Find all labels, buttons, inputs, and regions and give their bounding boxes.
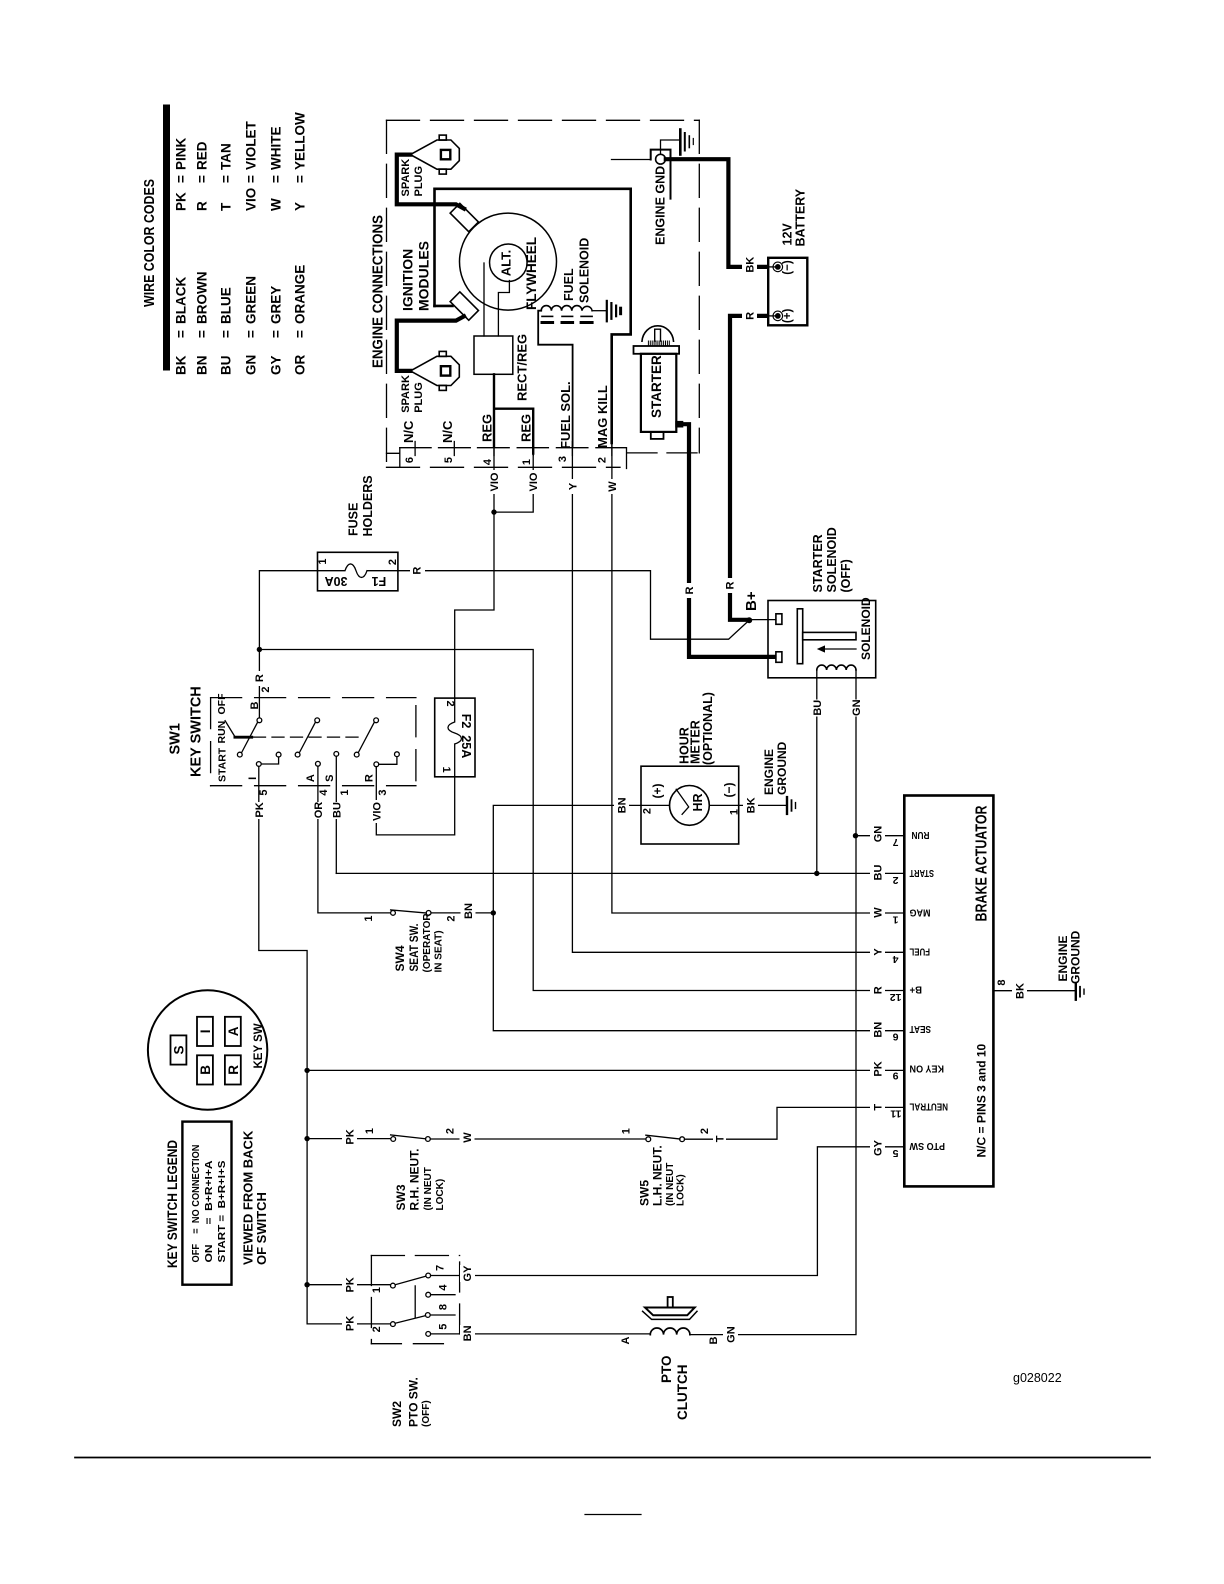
svg-text:(+): (+) xyxy=(651,783,665,798)
svg-text:F1: F1 xyxy=(372,574,387,588)
label BU xyxy=(329,802,344,819)
spark plug 2 wire (thick) xyxy=(397,316,464,371)
label PK (SW2 pin2) xyxy=(342,1315,357,1332)
svg-text:1: 1 xyxy=(440,766,452,772)
svg-text:ENGINE: ENGINE xyxy=(762,749,776,795)
svg-text:7: 7 xyxy=(435,1265,447,1271)
svg-text:(OFF): (OFF) xyxy=(421,1400,432,1427)
svg-text:OF SWITCH: OF SWITCH xyxy=(254,1192,269,1265)
SW2 blade 2 xyxy=(395,1316,425,1324)
PTO clutch rotor xyxy=(645,1308,695,1316)
wire GN to actuator RUN xyxy=(856,835,905,837)
svg-text:1: 1 xyxy=(371,1287,383,1293)
svg-text:SOLENOID: SOLENOID xyxy=(825,527,839,592)
switch RUN bar xyxy=(235,736,252,739)
svg-text:BN: BN xyxy=(616,797,628,813)
svg-text:I: I xyxy=(198,1030,213,1034)
wire BK hour meter to ground xyxy=(739,804,787,806)
svg-text:2: 2 xyxy=(642,808,654,814)
hour meter ground xyxy=(787,797,796,814)
wire BU solenoid to START net xyxy=(816,678,818,873)
node PK dot key-on xyxy=(304,1068,309,1073)
wire BN to actuator SEAT xyxy=(493,913,904,1031)
svg-text:HR: HR xyxy=(691,793,705,811)
svg-text:N/C: N/C xyxy=(401,420,416,443)
wire F1 pin1 to key switch B xyxy=(259,571,317,718)
spark plug 2 body xyxy=(410,351,459,390)
alternator circle xyxy=(490,244,528,282)
svg-text:2: 2 xyxy=(446,915,458,921)
svg-text:FUSE: FUSE xyxy=(347,503,361,536)
svg-text:R: R xyxy=(745,312,757,320)
switch OFF pointer xyxy=(225,721,235,737)
SW2 contact pin1 xyxy=(391,1283,396,1288)
svg-text:GY: GY xyxy=(269,355,284,375)
svg-text:VIO: VIO xyxy=(244,188,259,211)
ignition module 2 xyxy=(450,292,478,320)
SW2 pin4 stub xyxy=(431,1294,455,1296)
hour meter lead right xyxy=(709,804,738,806)
svg-text:WIRE COLOR CODES: WIRE COLOR CODES xyxy=(141,179,158,307)
solenoid terminal 2 xyxy=(776,652,782,663)
ignition modules bracket / engine body outline xyxy=(435,189,631,443)
svg-text:OR: OR xyxy=(313,802,325,819)
svg-text:SEAT: SEAT xyxy=(909,1023,931,1035)
wire VIO to F2 pin2 xyxy=(455,512,494,698)
svg-text:12: 12 xyxy=(890,991,902,1003)
flywheel circle xyxy=(460,213,557,310)
SW4 blade xyxy=(391,910,427,913)
svg-text:PLUG: PLUG xyxy=(413,166,425,197)
svg-text:KEY SWITCH: KEY SWITCH xyxy=(189,686,205,777)
SW2 contact pin7 xyxy=(426,1273,431,1278)
hour meter box xyxy=(641,766,739,844)
hour meter circle xyxy=(670,786,710,826)
starter body xyxy=(641,354,676,432)
svg-text:START: START xyxy=(909,867,934,879)
svg-text:PK: PK xyxy=(174,192,189,211)
svg-text:BU: BU xyxy=(873,865,885,881)
svg-text:T: T xyxy=(219,202,234,211)
svg-text:A: A xyxy=(620,1336,632,1344)
SW3 wire out W to SW5 xyxy=(430,1138,646,1140)
svg-text:OFF: OFF xyxy=(216,693,228,715)
SW2 contact pin4 xyxy=(426,1292,431,1297)
svg-text:FUEL: FUEL xyxy=(562,268,576,301)
svg-text:STARTER: STARTER xyxy=(811,534,825,592)
svg-text:FLYWHEEL: FLYWHEEL xyxy=(524,237,539,310)
svg-text:4: 4 xyxy=(893,953,899,965)
svg-text:PTO SW.: PTO SW. xyxy=(407,1377,421,1427)
svg-text:12V: 12V xyxy=(781,223,795,246)
key sw pin box R xyxy=(225,1055,241,1084)
svg-text:R: R xyxy=(195,201,210,211)
svg-text:GREEN: GREEN xyxy=(244,276,259,324)
svg-text:ENGINE CONNECTIONS: ENGINE CONNECTIONS xyxy=(370,215,387,368)
svg-text:BLUE: BLUE xyxy=(219,287,234,324)
svg-text:5: 5 xyxy=(443,457,455,463)
svg-text:=: = xyxy=(244,330,259,338)
svg-text:(OFF): (OFF) xyxy=(839,559,853,592)
legend entry OR = ORANGE xyxy=(293,265,308,375)
svg-text:N/C: N/C xyxy=(440,420,455,443)
svg-text:F2 25A: F2 25A xyxy=(459,714,473,758)
svg-text:R: R xyxy=(873,986,885,994)
hour meter needle xyxy=(676,789,689,814)
pole2 common contact xyxy=(315,718,320,723)
engine box dashed left edge xyxy=(386,120,388,467)
label OR xyxy=(310,802,325,819)
starter dome hatch xyxy=(648,341,669,346)
svg-text:2: 2 xyxy=(387,559,399,565)
svg-text:=: = xyxy=(219,175,234,183)
SW2 blade 1 xyxy=(395,1276,426,1285)
svg-text:1: 1 xyxy=(363,915,375,921)
legend entry VIO = VIOLET xyxy=(244,120,259,211)
wire VIO key switch R to F2 pin1 xyxy=(376,768,454,835)
node BU dot xyxy=(814,871,819,876)
svg-text:GN: GN xyxy=(873,826,885,843)
svg-text:1: 1 xyxy=(317,558,329,564)
svg-text:N/C = PINS 3 and 10: N/C = PINS 3 and 10 xyxy=(975,1043,989,1157)
svg-text:=: = xyxy=(195,330,210,338)
svg-text:MODULES: MODULES xyxy=(416,241,432,311)
svg-text:LOCK): LOCK) xyxy=(435,1179,446,1211)
svg-text:GROUND: GROUND xyxy=(775,741,789,795)
svg-text:BLACK: BLACK xyxy=(174,277,189,324)
svg-text:BROWN: BROWN xyxy=(195,272,210,325)
node PK dot sw2 xyxy=(304,1282,309,1287)
svg-text:2: 2 xyxy=(597,457,609,463)
pole3 common contact xyxy=(374,718,379,723)
alternator lead 2 xyxy=(498,281,509,337)
svg-text:ENGINE GND: ENGINE GND xyxy=(654,166,668,245)
fuel solenoid ground stub xyxy=(592,310,606,312)
legend entry BN = BROWN xyxy=(195,272,210,376)
svg-text:B+: B+ xyxy=(910,984,923,996)
svg-text:START = B+R+I+S: START = B+R+I+S xyxy=(216,1161,228,1263)
SW2 contact pin5 xyxy=(426,1332,431,1337)
svg-text:RECT/REG: RECT/REG xyxy=(515,334,530,401)
svg-text:RUN: RUN xyxy=(216,721,228,744)
wire GY SW2 pin7 to actuator PTO SW xyxy=(431,1147,905,1276)
solenoid coil xyxy=(817,665,856,670)
node BN junction dot xyxy=(491,910,496,915)
pole2 S contact xyxy=(334,752,339,757)
svg-text:2: 2 xyxy=(260,686,272,692)
svg-text:R: R xyxy=(725,581,737,589)
REG wire from rect/reg to pins 4 and 1 xyxy=(494,374,533,453)
label PK xyxy=(251,802,266,819)
svg-text:1: 1 xyxy=(621,1128,633,1134)
SW4 contact 1 xyxy=(391,911,396,916)
svg-text:START: START xyxy=(217,747,229,782)
wire BU key switch to actuator START xyxy=(336,872,904,874)
spark plug 1 body xyxy=(410,135,459,174)
svg-text:PINK: PINK xyxy=(174,137,189,170)
svg-text:3: 3 xyxy=(557,456,569,462)
pole2 blade contact xyxy=(295,752,300,757)
bracket foot xyxy=(435,305,453,308)
starter solenoid box xyxy=(768,601,876,678)
svg-text:1: 1 xyxy=(364,1128,376,1134)
node VIO junction dot xyxy=(491,509,496,514)
label R (pin B wire) xyxy=(253,671,267,686)
svg-text:3: 3 xyxy=(377,789,389,795)
svg-text:R: R xyxy=(364,774,376,782)
svg-text:S: S xyxy=(324,775,336,782)
svg-text:5: 5 xyxy=(258,789,270,795)
label R near fuse output xyxy=(410,563,425,578)
pole2 A contact xyxy=(316,761,321,766)
label BN (SW4) xyxy=(461,903,476,920)
pole1 blade xyxy=(242,722,258,752)
svg-text:KEY SW: KEY SW xyxy=(253,1023,265,1068)
svg-text:1: 1 xyxy=(729,809,741,815)
svg-text:30A: 30A xyxy=(325,574,348,588)
svg-text:KEY SWITCH LEGEND: KEY SWITCH LEGEND xyxy=(165,1140,180,1268)
svg-text:(OPERATOR: (OPERATOR xyxy=(422,913,433,973)
fuse F1 element xyxy=(318,564,398,578)
label VIO pin1 xyxy=(525,470,540,494)
thick wire battery plus to B+ xyxy=(730,316,767,620)
key sw pin box B xyxy=(197,1055,213,1084)
svg-text:(−): (−) xyxy=(782,260,794,275)
svg-text:(+): (+) xyxy=(782,309,794,324)
legend rule xyxy=(163,108,170,367)
battery plus terminal xyxy=(767,315,775,317)
engine gnd terminal circle xyxy=(656,154,666,164)
svg-text:GN: GN xyxy=(244,355,259,375)
svg-text:SPARK: SPARK xyxy=(400,375,412,413)
svg-text:MAG KILL: MAG KILL xyxy=(595,385,610,448)
svg-text:B: B xyxy=(249,701,261,709)
starter dome tee xyxy=(655,329,661,341)
fuel solenoid coil xyxy=(541,306,592,311)
svg-text:SW4: SW4 xyxy=(393,945,407,971)
wire R branch to actuator B+ pin 12 xyxy=(259,650,904,991)
label GY (SW2) xyxy=(460,1265,475,1282)
engine box dashed bottom edge right xyxy=(627,452,699,454)
svg-text:A: A xyxy=(226,1026,241,1036)
svg-text:OR: OR xyxy=(293,354,308,375)
svg-text:SOLENOID: SOLENOID xyxy=(578,238,592,303)
svg-text:B+: B+ xyxy=(743,591,760,611)
svg-text:GY: GY xyxy=(462,1265,474,1282)
battery minus terminal xyxy=(767,266,775,268)
pole1 START contact xyxy=(237,752,242,757)
SW2 dashed box xyxy=(371,1255,459,1257)
svg-text:=: = xyxy=(195,175,210,183)
svg-text:PTO: PTO xyxy=(659,1355,674,1383)
svg-text:R: R xyxy=(412,567,424,575)
svg-text:VIO: VIO xyxy=(371,802,383,821)
pole1 contact link xyxy=(261,757,278,764)
svg-text:=: = xyxy=(174,175,189,183)
svg-text:SOLENOID: SOLENOID xyxy=(859,597,873,660)
engine gnd ground bars xyxy=(680,130,693,155)
legend entry T = TAN xyxy=(219,143,234,211)
svg-text:TAN: TAN xyxy=(219,143,234,170)
pole2 pin A wire down xyxy=(318,766,391,913)
svg-text:1: 1 xyxy=(893,914,899,926)
legend entry GN = GREEN xyxy=(244,276,259,375)
footer rule xyxy=(75,1457,1150,1459)
svg-text:HOLDERS: HOLDERS xyxy=(361,475,375,536)
key switch RUN dashed line xyxy=(254,736,365,738)
solenoid T bar xyxy=(797,609,802,664)
svg-text:4: 4 xyxy=(438,1284,450,1291)
svg-text:9: 9 xyxy=(893,1070,899,1082)
svg-text:W: W xyxy=(873,907,885,918)
SW3 contact 1 xyxy=(391,1137,396,1142)
svg-text:LOCK): LOCK) xyxy=(676,1174,687,1206)
svg-text:BN: BN xyxy=(463,903,475,919)
svg-text:YELLOW: YELLOW xyxy=(293,112,308,170)
svg-text:W: W xyxy=(462,1132,474,1143)
node GN dot at RUN xyxy=(853,833,858,838)
svg-text:PK: PK xyxy=(254,802,266,817)
SW2 contact pin2 xyxy=(391,1322,396,1327)
svg-text:IGNITION: IGNITION xyxy=(400,249,416,311)
label T (SW5) xyxy=(713,1132,726,1147)
svg-text:REG: REG xyxy=(519,414,534,442)
svg-text:SW2: SW2 xyxy=(390,1401,404,1427)
pole1 pin I wire down xyxy=(259,766,391,1324)
svg-text:=: = xyxy=(293,175,308,183)
solenoid terminal 1 xyxy=(776,614,782,625)
label GN (solenoid) xyxy=(849,700,864,717)
label R on starter wire xyxy=(682,583,696,598)
SW3 blade xyxy=(391,1135,426,1139)
starter terminal xyxy=(675,421,683,428)
PTO clutch coil xyxy=(650,1328,690,1335)
starter dome xyxy=(642,326,674,341)
pole1 I contact xyxy=(256,762,261,767)
svg-text:2: 2 xyxy=(893,874,899,886)
legend entry GY = GREY xyxy=(269,286,284,375)
pole3 right contact xyxy=(395,752,400,757)
svg-text:(IN NEUT: (IN NEUT xyxy=(665,1163,676,1206)
svg-text:ORANGE: ORANGE xyxy=(293,265,308,324)
svg-text:2: 2 xyxy=(371,1326,383,1332)
pole3 blade xyxy=(358,722,374,752)
svg-text:BU: BU xyxy=(331,802,343,818)
strip left end xyxy=(387,448,400,468)
svg-text:2: 2 xyxy=(699,1128,711,1134)
svg-text:VIOLET: VIOLET xyxy=(244,120,259,170)
wire PK to SW2 pin1 xyxy=(307,1284,390,1286)
svg-text:5: 5 xyxy=(438,1324,450,1330)
fuel solenoid core dashes xyxy=(542,315,592,317)
svg-text:I: I xyxy=(247,777,259,780)
svg-text:GROUND: GROUND xyxy=(1069,930,1083,984)
svg-text:VIO: VIO xyxy=(528,472,540,491)
PTO clutch stem xyxy=(668,1297,673,1308)
legend entry BK = BLACK xyxy=(174,277,189,375)
label BU (solenoid) xyxy=(810,700,825,717)
svg-text:Y: Y xyxy=(293,202,308,211)
key sw pin box S xyxy=(171,1035,187,1064)
svg-text:4: 4 xyxy=(318,789,330,796)
ignition module 1 xyxy=(450,203,478,231)
svg-text:BK: BK xyxy=(746,797,758,813)
hour meter lead left xyxy=(641,804,670,806)
svg-text:4: 4 xyxy=(482,458,494,465)
svg-text:8: 8 xyxy=(438,1304,450,1310)
wire pin4 VIO down xyxy=(493,446,495,512)
pole2 blade xyxy=(299,722,315,752)
svg-text:ALT.: ALT. xyxy=(499,250,514,276)
thick wire engine gnd to battery minus xyxy=(666,159,767,267)
svg-text:BK: BK xyxy=(1015,983,1027,999)
pole1 common contact B xyxy=(257,718,262,723)
SW5 contact 2 xyxy=(680,1137,685,1142)
wire PK to SW3 xyxy=(307,1138,391,1140)
svg-text:SW1: SW1 xyxy=(168,723,184,754)
svg-text:SW5: SW5 xyxy=(638,1180,652,1206)
label R on B+ drop wire xyxy=(723,578,737,593)
svg-text:B: B xyxy=(708,1336,720,1344)
alternator lead 1 xyxy=(483,263,485,336)
wire pin1 VIO down xyxy=(494,454,533,513)
svg-text:PK: PK xyxy=(873,1061,885,1076)
node R junction dot at key switch feed xyxy=(257,647,262,652)
fuse F1 box xyxy=(318,552,398,591)
wire PK to actuator KEY ON xyxy=(307,1069,904,1071)
solenoid arrow xyxy=(822,648,856,650)
engine gnd wire from magneto xyxy=(612,159,651,161)
SW5 contact 1 xyxy=(646,1137,651,1142)
svg-text:BK: BK xyxy=(174,355,189,375)
svg-text:(−): (−) xyxy=(722,782,736,797)
SW5 wire out T to actuator NEUTRAL xyxy=(685,1107,905,1139)
pole3 R contact xyxy=(374,762,379,767)
label R on battery wire xyxy=(742,308,757,324)
svg-text:6: 6 xyxy=(404,457,416,463)
node PK dot sw3 xyxy=(304,1136,309,1141)
fuse F2 box xyxy=(435,698,475,777)
svg-text:ON = B+R+I+A: ON = B+R+I+A xyxy=(203,1160,215,1262)
legend entry BU = BLUE xyxy=(219,287,234,375)
engine box dashed right edge xyxy=(698,120,700,453)
wire B+ dot to solenoid terminal 1 xyxy=(749,619,776,621)
spark plug 1 wire (thick) xyxy=(397,155,464,209)
svg-text:R: R xyxy=(684,586,696,594)
pin ticks xyxy=(415,442,612,456)
legend entry PK = PINK xyxy=(174,137,189,211)
svg-text:SPARK: SPARK xyxy=(400,159,412,197)
svg-text:BN: BN xyxy=(195,356,210,376)
key sw circle xyxy=(148,990,267,1109)
SW2 gang link xyxy=(414,1286,416,1317)
svg-text:5: 5 xyxy=(893,1147,899,1159)
label PK (SW3) xyxy=(342,1129,357,1146)
svg-text:2: 2 xyxy=(445,1128,457,1134)
engine gnd stub xyxy=(661,140,679,154)
brake actuator box xyxy=(904,796,993,1187)
pole1 right contact xyxy=(276,752,281,757)
starter bottom tab xyxy=(651,432,664,439)
fuel solenoid ground xyxy=(607,301,621,321)
svg-text:g028022: g028022 xyxy=(1013,1371,1062,1385)
svg-text:SEAT SW.: SEAT SW. xyxy=(407,924,421,972)
key sw pin box A xyxy=(225,1017,241,1046)
pole3 blade contact xyxy=(354,752,359,757)
label VIO pin4 xyxy=(486,470,501,494)
label BK (hour meter) xyxy=(743,797,758,814)
svg-text:PTO SW: PTO SW xyxy=(909,1140,945,1152)
